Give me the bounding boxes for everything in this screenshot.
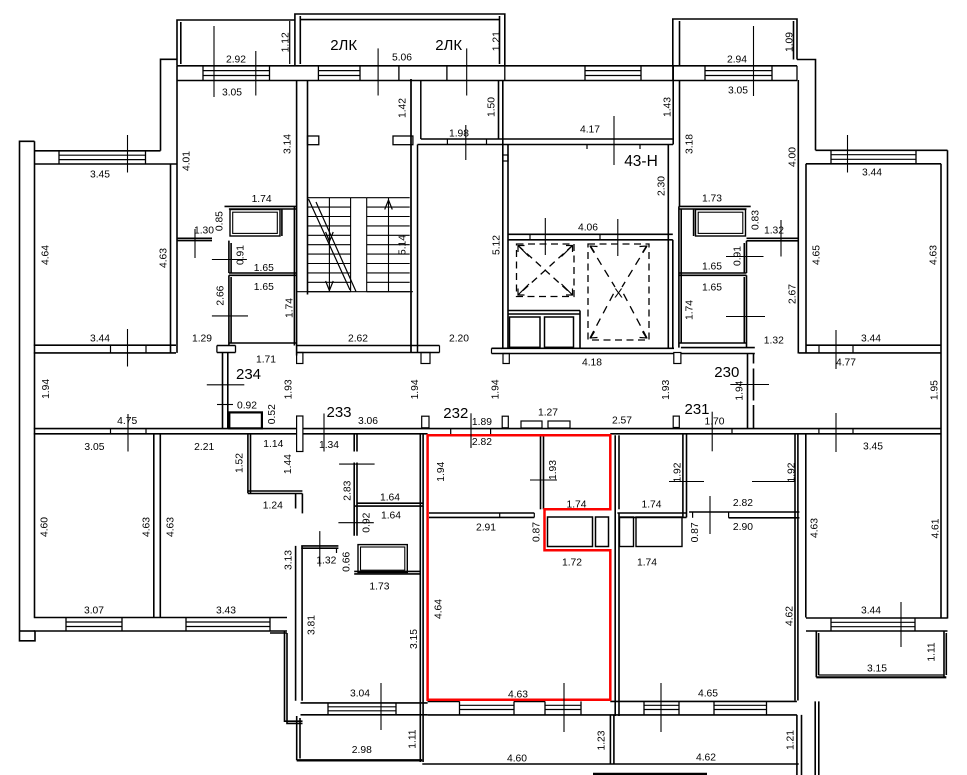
svg-text:3.44: 3.44 — [90, 334, 110, 345]
svg-text:1.65: 1.65 — [702, 262, 722, 273]
lower neighbor walls — [609, 715, 611, 764]
svg-text:3.13: 3.13 — [284, 550, 295, 570]
svg-text:2.67: 2.67 — [788, 284, 799, 304]
svg-text:4.77: 4.77 — [836, 358, 856, 369]
svg-text:233: 233 — [326, 404, 351, 421]
svg-text:1.29: 1.29 — [192, 334, 212, 345]
storage box 0.85 — [230, 210, 280, 237]
stairwell bottom wall — [297, 345, 440, 347]
window 3.07 — [66, 622, 122, 627]
3.44 bottom wall of top-left room — [34, 344, 176, 346]
svg-text:1.30: 1.30 — [194, 226, 214, 237]
wall above elevator boxes — [508, 310, 580, 312]
corridor left end wall — [222, 353, 224, 429]
svg-text:1.65: 1.65 — [702, 283, 722, 294]
svg-text:1.92: 1.92 — [787, 462, 798, 482]
bathroom 1.65/1.74 walls — [228, 275, 230, 345]
bathroom block top wall 1.74 — [225, 205, 297, 207]
window 4.65 — [644, 705, 679, 709]
svg-text:3.18: 3.18 — [685, 134, 696, 154]
wall left of 3.44 room — [797, 80, 799, 354]
svg-text:1.21: 1.21 — [786, 730, 797, 750]
svg-text:1.71: 1.71 — [256, 355, 276, 366]
room 232/233 wall lower — [419, 506, 421, 762]
svg-text:5.14: 5.14 — [398, 235, 409, 255]
bottom edge balcony line — [593, 773, 707, 775]
svg-text:1.09: 1.09 — [785, 32, 796, 52]
svg-text:3.05: 3.05 — [222, 88, 242, 99]
apt231 bedroom right wall — [682, 434, 684, 517]
svg-text:4.06: 4.06 — [578, 223, 598, 234]
svg-text:1.89: 1.89 — [472, 417, 492, 428]
svg-text:2.90: 2.90 — [733, 522, 753, 533]
svg-text:3.44: 3.44 — [861, 606, 881, 617]
svg-text:1.92: 1.92 — [673, 462, 684, 482]
svg-text:1.98: 1.98 — [449, 129, 469, 140]
svg-text:3.81: 3.81 — [307, 615, 318, 635]
svg-text:2.57: 2.57 — [612, 416, 632, 427]
svg-text:1.74: 1.74 — [641, 500, 661, 511]
right room bottom wall — [806, 617, 948, 619]
svg-text:1.14: 1.14 — [263, 439, 283, 450]
svg-text:1.24: 1.24 — [263, 500, 283, 511]
svg-text:1.52: 1.52 — [235, 453, 246, 473]
wall below red room 2.91 — [429, 512, 534, 514]
elevator lobby boxes — [510, 317, 541, 347]
wall 1.32 right — [747, 237, 799, 239]
svg-text:4.62: 4.62 — [785, 606, 796, 626]
corridor top wall left tee — [217, 345, 236, 347]
window 3.45 top-left room — [59, 155, 146, 159]
svg-text:0.92: 0.92 — [362, 512, 373, 532]
svg-text:3.45: 3.45 — [863, 442, 883, 453]
wall 1.64/1.64 divider — [357, 502, 423, 504]
svg-text:1.21: 1.21 — [491, 31, 502, 51]
svg-text:1.64: 1.64 — [380, 493, 400, 504]
svg-text:1.74: 1.74 — [252, 194, 272, 205]
svg-text:2.82: 2.82 — [472, 437, 492, 448]
svg-text:2.30: 2.30 — [657, 176, 668, 196]
wall 1.52 — [247, 434, 249, 493]
43-H right wall — [672, 66, 674, 145]
left room 3.45 top wall — [35, 150, 161, 152]
dimension ticks — [128, 26, 902, 732]
svg-text:1.65: 1.65 — [254, 282, 274, 293]
svg-text:1.94: 1.94 — [491, 379, 502, 399]
tooth — [421, 353, 430, 364]
top inner wall — [177, 80, 797, 82]
svg-text:4.17: 4.17 — [580, 125, 600, 136]
apt230 hall left wall — [747, 354, 749, 429]
svg-text:1.73: 1.73 — [369, 582, 389, 593]
svg-text:1.12: 1.12 — [281, 32, 292, 52]
svg-text:231: 231 — [684, 401, 709, 418]
corridor bottom wall lower line — [34, 433, 428, 435]
svg-text:4.65: 4.65 — [698, 689, 718, 700]
svg-text:2.20: 2.20 — [449, 334, 469, 345]
svg-text:4.64: 4.64 — [41, 245, 52, 265]
svg-text:4.61: 4.61 — [931, 518, 942, 538]
0.92 step box — [229, 412, 262, 428]
svg-text:2.92: 2.92 — [226, 55, 246, 66]
stair arrows — [326, 232, 334, 242]
tooth — [674, 353, 681, 364]
wall 2.82/2.90 — [689, 511, 799, 513]
svg-text:43-H: 43-H — [624, 153, 658, 170]
svg-text:1.34: 1.34 — [319, 440, 339, 451]
svg-text:1.94: 1.94 — [735, 380, 746, 400]
wall below apt231 bedroom — [617, 512, 686, 514]
wall right of 3.45 room (4.63) — [176, 66, 178, 353]
svg-text:3.45: 3.45 — [90, 170, 110, 181]
apt233 lower room walls — [301, 545, 338, 547]
svg-text:2.82: 2.82 — [733, 498, 753, 509]
svg-text:1.43: 1.43 — [663, 97, 674, 117]
svg-text:1.93: 1.93 — [284, 379, 295, 399]
svg-text:4.63: 4.63 — [159, 248, 170, 268]
svg-text:1.94: 1.94 — [41, 379, 52, 399]
window — [318, 71, 360, 76]
room divider 3.05/2.21 — [153, 434, 155, 618]
elevator shaft 1 dashed — [517, 244, 575, 297]
svg-text:4.01: 4.01 — [182, 151, 193, 171]
svg-text:232: 232 — [443, 405, 468, 422]
svg-text:1.74: 1.74 — [685, 300, 696, 320]
apt231 left wall — [614, 435, 616, 716]
outer wall left step — [161, 59, 178, 151]
window bottom 4 — [714, 705, 767, 709]
svg-text:1.50: 1.50 — [487, 97, 498, 117]
svg-text:1.94: 1.94 — [410, 379, 421, 399]
svg-text:3.06: 3.06 — [358, 416, 378, 427]
storage box 0.83 right — [696, 210, 746, 237]
svg-text:0.85: 0.85 — [214, 211, 225, 231]
wall 1.30 left — [177, 237, 212, 239]
apt232 bedroom left wall — [540, 435, 542, 509]
window 3.44 bottom-right — [831, 622, 915, 626]
svg-text:2.91: 2.91 — [476, 523, 496, 534]
wall 4.06 — [508, 233, 673, 235]
svg-text:230: 230 — [714, 364, 739, 381]
red outline apartment 232 — [428, 435, 611, 699]
svg-text:0.83: 0.83 — [751, 210, 762, 230]
balcony block top-center (2LK vestibule) — [295, 14, 505, 66]
svg-text:2.62: 2.62 — [348, 334, 368, 345]
svg-text:4.63: 4.63 — [810, 518, 821, 538]
svg-text:2.83: 2.83 — [342, 480, 353, 500]
svg-text:1.70: 1.70 — [704, 417, 724, 428]
svg-text:0.91: 0.91 — [236, 245, 247, 265]
svg-text:1.11: 1.11 — [927, 642, 938, 662]
tooth — [297, 353, 303, 364]
svg-text:4.60: 4.60 — [507, 754, 527, 765]
svg-text:3.44: 3.44 — [861, 334, 881, 345]
stair flight diagonals — [309, 199, 357, 292]
svg-text:5.06: 5.06 — [392, 53, 412, 64]
apt233 bathroom right wall — [419, 434, 421, 506]
svg-text:X: X — [614, 286, 623, 301]
svg-text:0.87: 0.87 — [532, 522, 543, 542]
svg-text:0.66: 0.66 — [342, 552, 353, 572]
svg-text:1.27: 1.27 — [538, 408, 558, 419]
svg-text:0.91: 0.91 — [733, 246, 744, 266]
svg-text:4.18: 4.18 — [582, 358, 602, 369]
43-H left wall — [498, 80, 500, 139]
vent boxes near 232 door — [521, 421, 542, 428]
svg-text:2ЛК: 2ЛК — [435, 37, 462, 54]
svg-text:3.05: 3.05 — [84, 442, 104, 453]
svg-text:1.93: 1.93 — [548, 460, 559, 480]
svg-text:1.23: 1.23 — [597, 730, 608, 750]
inter-apartment wall 231/230-lower — [794, 434, 796, 701]
corridor bottom wall upper line — [34, 428, 941, 430]
svg-text:1.32: 1.32 — [316, 556, 336, 567]
svg-text:4.63: 4.63 — [929, 245, 940, 265]
corridor top wall right — [681, 347, 755, 349]
svg-text:1.74: 1.74 — [284, 298, 295, 318]
outer wall left — [20, 141, 36, 641]
svg-text:3.14: 3.14 — [283, 134, 294, 154]
apt233 room bottom wall — [301, 702, 428, 704]
svg-text:4.64: 4.64 — [434, 599, 445, 619]
svg-text:3.04: 3.04 — [350, 689, 370, 700]
shaft1 corner arrows — [518, 246, 529, 257]
svg-text:4.75: 4.75 — [117, 416, 137, 427]
svg-text:4.62: 4.62 — [696, 753, 716, 764]
svg-text:5.12: 5.12 — [492, 235, 503, 255]
svg-text:3.44: 3.44 — [862, 168, 882, 179]
svg-text:1.94: 1.94 — [436, 461, 447, 481]
3.44 room bottom wall top-right — [806, 344, 941, 346]
door jambs corridor — [110, 429, 112, 434]
svg-text:1.11: 1.11 — [407, 729, 418, 749]
svg-text:2ЛК: 2ЛК — [330, 37, 357, 54]
window 4.63 bottom — [460, 705, 515, 709]
tooth — [503, 354, 509, 364]
svg-text:234: 234 — [236, 366, 261, 383]
right bathroom walls — [746, 241, 748, 273]
balcony 3.15 — [816, 631, 946, 677]
stairwell right wall — [410, 79, 412, 353]
bottom wall left rooms — [34, 617, 287, 619]
window — [203, 71, 270, 76]
svg-text:3.15: 3.15 — [867, 664, 887, 675]
bathroom block top wall 1.73 right — [679, 205, 751, 207]
svg-text:1.44: 1.44 — [283, 454, 294, 474]
right top wall — [816, 149, 948, 151]
elevator shaft 2 dashed — [588, 244, 649, 340]
svg-text:1.32: 1.32 — [764, 335, 784, 346]
bathroom 0.91/1.65 walls — [228, 241, 230, 273]
svg-text:0.92: 0.92 — [237, 401, 257, 412]
svg-text:1.32: 1.32 — [764, 226, 784, 237]
top outer wall — [177, 65, 797, 67]
svg-text:1.74: 1.74 — [637, 558, 657, 569]
stair landing stubs — [308, 136, 319, 145]
window 3.44 top-right room — [831, 155, 916, 160]
stairwell left wall — [296, 81, 298, 356]
window bottom 2 — [545, 705, 581, 709]
svg-text:0.87: 0.87 — [690, 522, 701, 542]
svg-text:4.00: 4.00 — [788, 147, 799, 167]
vent box kitchen — [548, 517, 593, 547]
svg-text:1.74: 1.74 — [566, 500, 586, 511]
balcony block top-right — [673, 19, 797, 66]
svg-text:1.65: 1.65 — [254, 263, 274, 274]
svg-text:4.63: 4.63 — [142, 517, 153, 537]
svg-text:2.94: 2.94 — [727, 55, 747, 66]
svg-text:1.93: 1.93 — [661, 380, 672, 400]
svg-text:0.52: 0.52 — [267, 404, 278, 424]
wall 1.24 — [248, 490, 303, 492]
window 3.04 — [328, 707, 396, 711]
window — [585, 71, 641, 76]
43-H door stub — [503, 155, 508, 161]
outer wall right — [947, 150, 949, 618]
apt231 vent boxes — [620, 517, 634, 547]
bottom band walls — [610, 700, 797, 702]
svg-text:2.98: 2.98 — [352, 745, 372, 756]
svg-text:1.72: 1.72 — [562, 558, 582, 569]
shaft2 corner arrows — [591, 246, 598, 253]
balcony 2.98 — [297, 716, 300, 760]
svg-text:4.63: 4.63 — [508, 690, 528, 701]
outer wall right step — [797, 60, 816, 151]
svg-text:4.65: 4.65 — [812, 245, 823, 265]
stairs — [297, 198, 413, 292]
wall 230 top-room left — [679, 81, 681, 207]
svg-text:2.66: 2.66 — [215, 285, 226, 305]
outer corner bottom-left — [20, 630, 36, 632]
elevator room bottom wall — [492, 347, 675, 349]
balcony block top-left — [177, 20, 295, 66]
svg-text:1.95: 1.95 — [930, 380, 941, 400]
window — [705, 71, 772, 76]
svg-text:3.05: 3.05 — [728, 86, 748, 97]
svg-text:2.21: 2.21 — [194, 442, 214, 453]
svg-text:1.64: 1.64 — [381, 511, 401, 522]
window 3.43 — [186, 622, 270, 627]
apt233 bathroom wall 2.83 — [354, 434, 357, 536]
svg-text:3.15: 3.15 — [409, 629, 420, 649]
svg-text:3.07: 3.07 — [84, 606, 104, 617]
svg-text:1.73: 1.73 — [702, 194, 722, 205]
svg-text:1.42: 1.42 — [398, 98, 409, 118]
svg-text:3.43: 3.43 — [216, 606, 236, 617]
apt233 closet 1.73 — [358, 545, 407, 573]
svg-text:4.63: 4.63 — [166, 517, 177, 537]
wall stub down — [295, 494, 297, 509]
wall 1.98 / 4.17 (43-H top) — [421, 138, 673, 140]
svg-text:4.60: 4.60 — [40, 517, 51, 537]
